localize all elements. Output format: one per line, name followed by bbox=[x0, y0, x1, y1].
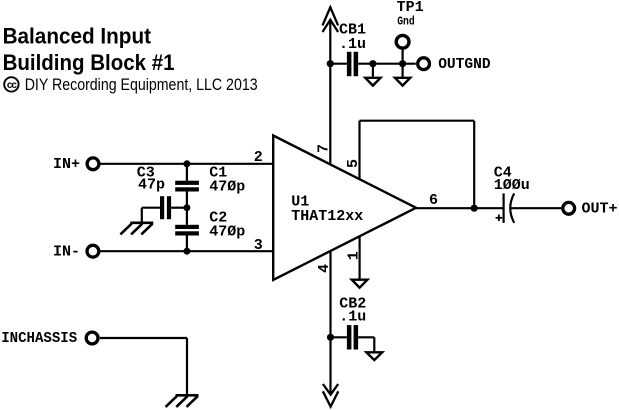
node IN- junction bbox=[183, 248, 190, 255]
capacitor C3 bbox=[137, 164, 187, 222]
pin 7 wire bbox=[316, 20, 333, 165]
power arrow down (V-) bbox=[323, 384, 338, 407]
capacitor C1 bbox=[175, 164, 245, 208]
svg-text:47Øp: 47Øp bbox=[209, 223, 245, 240]
svg-text:TP1: TP1 bbox=[397, 0, 424, 16]
ground chassis (INCHASSIS) bbox=[166, 395, 199, 407]
svg-text:.1u: .1u bbox=[339, 36, 366, 53]
svg-text:Building Block #1: Building Block #1 bbox=[3, 50, 175, 75]
svg-text:THAT12xx: THAT12xx bbox=[291, 208, 363, 225]
terminal INCHASSIS bbox=[1, 330, 98, 347]
terminal IN+ bbox=[53, 156, 99, 173]
svg-text:2: 2 bbox=[254, 149, 263, 166]
svg-text:Balanced Input: Balanced Input bbox=[3, 23, 152, 48]
capacitor CB1 bbox=[330, 22, 416, 77]
node middle junction bbox=[183, 204, 190, 211]
wire feedback vertical bbox=[473, 121, 475, 209]
wire C4 to OUT+ bbox=[511, 207, 562, 209]
capacitor CB2 bbox=[331, 296, 375, 353]
svg-text:4: 4 bbox=[316, 264, 333, 273]
svg-text:6: 6 bbox=[429, 192, 438, 209]
testpoint TP1 bbox=[396, 0, 423, 64]
svg-text:7: 7 bbox=[316, 144, 333, 153]
CC license icon bbox=[4, 77, 18, 91]
svg-text:.1u: .1u bbox=[339, 309, 366, 326]
node TP1 junction bbox=[399, 60, 406, 67]
svg-text:1: 1 bbox=[346, 251, 363, 260]
wire pin 6 output bbox=[416, 207, 504, 209]
svg-text:3: 3 bbox=[254, 237, 263, 254]
ground arrow (TP1) bbox=[395, 64, 410, 86]
capacitor C2 bbox=[175, 208, 245, 252]
pin 1 wire bbox=[346, 236, 363, 279]
ground arrow (CB1) bbox=[365, 64, 380, 86]
title text bbox=[3, 23, 175, 75]
pin 1 ground arrow bbox=[352, 280, 368, 288]
svg-text:47Øp: 47Øp bbox=[209, 178, 245, 195]
svg-text:IN-: IN- bbox=[53, 243, 80, 260]
pin 4 wire bbox=[316, 251, 333, 394]
power arrow up (V+) bbox=[323, 7, 339, 32]
op-amp U1 bbox=[273, 136, 416, 280]
svg-text:47p: 47p bbox=[138, 176, 165, 193]
wire feedback horizontal bbox=[360, 120, 475, 122]
svg-text:cc: cc bbox=[7, 80, 18, 91]
terminal IN- bbox=[53, 243, 99, 260]
capacitor C4 bbox=[494, 165, 530, 223]
node pin4/CB2 junction bbox=[327, 334, 334, 341]
wire IN+ to pin 2 bbox=[100, 163, 273, 165]
svg-text:DIY Recording Equipment, LLC 2: DIY Recording Equipment, LLC 2013 bbox=[25, 76, 258, 94]
svg-text:5: 5 bbox=[345, 159, 362, 168]
wire INCHASSIS bbox=[100, 338, 187, 395]
node IN+ junction bbox=[183, 160, 190, 167]
node pin7/CB1 junction bbox=[327, 60, 334, 67]
pin 5 wire bbox=[345, 121, 362, 179]
svg-text:INCHASSIS: INCHASSIS bbox=[1, 330, 77, 347]
wire IN- to pin 3 bbox=[100, 250, 273, 252]
svg-text:1ØØu: 1ØØu bbox=[494, 177, 530, 194]
terminal OUTGND bbox=[418, 56, 491, 73]
svg-text:OUT+: OUT+ bbox=[582, 201, 618, 218]
node output junction bbox=[471, 205, 478, 212]
svg-text:IN+: IN+ bbox=[53, 156, 80, 173]
svg-text:Gnd: Gnd bbox=[397, 15, 415, 28]
ground chassis (C3) bbox=[120, 223, 153, 235]
terminal OUT+ bbox=[563, 201, 618, 218]
ground arrow (CB2) bbox=[366, 352, 382, 360]
svg-text:OUTGND: OUTGND bbox=[438, 56, 491, 73]
node CB1 ground junction bbox=[369, 60, 376, 67]
